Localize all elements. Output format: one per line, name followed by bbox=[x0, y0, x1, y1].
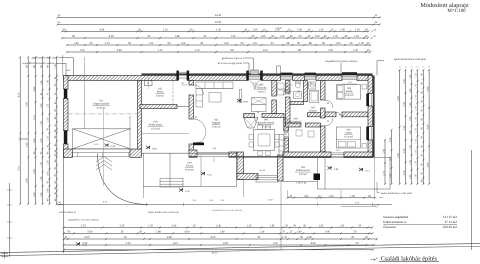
svg-text:24.30: 24.30 bbox=[215, 14, 222, 17]
svg-text:1.90: 1.90 bbox=[54, 64, 57, 69]
dimension row bottom 2 bbox=[63, 232, 374, 234]
covered terrace 01A outline bbox=[142, 152, 190, 154]
svg-text:1.40: 1.40 bbox=[40, 176, 43, 181]
svg-text:15: 15 bbox=[405, 66, 407, 69]
svg-text:1.10: 1.10 bbox=[157, 49, 162, 52]
svg-text:1.35: 1.35 bbox=[148, 42, 153, 45]
svg-text:Fedett terasz: Fedett terasz bbox=[149, 124, 163, 127]
wall: hall/bedroom partition bbox=[321, 81, 326, 101]
wall: nappali left partition lower bbox=[189, 144, 194, 152]
svg-text:24.30: 24.30 bbox=[211, 252, 218, 255]
window left wall 1 (dark) bbox=[64, 89, 68, 99]
svg-text:3.05: 3.05 bbox=[328, 49, 333, 52]
tv bbox=[240, 90, 242, 103]
wall: garage bottom right pier bbox=[130, 149, 142, 157]
svg-text:131.15 m2: 131.15 m2 bbox=[443, 215, 457, 219]
dimension column right 3 bbox=[410, 69, 412, 185]
svg-text:1.10: 1.10 bbox=[259, 230, 264, 233]
svg-text:Családi lakóház építés: Családi lakóház építés bbox=[381, 255, 438, 262]
dimension column left 4 bbox=[41, 56, 43, 205]
dimension row top 5 bbox=[66, 44, 372, 46]
svg-text:1.01: 1.01 bbox=[252, 42, 257, 45]
svg-text:7.10: 7.10 bbox=[18, 166, 21, 171]
svg-text:1.10: 1.10 bbox=[415, 161, 418, 166]
svg-text:1.40: 1.40 bbox=[297, 230, 302, 233]
svg-text:1.48: 1.48 bbox=[174, 35, 179, 38]
svg-text:-0.45: -0.45 bbox=[207, 173, 213, 176]
svg-text:1.00: 1.00 bbox=[340, 28, 345, 31]
svg-text:aszfalt lehajtó út: aszfalt lehajtó út bbox=[59, 211, 76, 214]
svg-text:épület körüli beton védő járda: épület körüli beton védő járda bbox=[381, 192, 413, 195]
svg-text:1.80: 1.80 bbox=[389, 156, 392, 161]
svg-text:1.40: 1.40 bbox=[40, 80, 43, 85]
svg-text:37.12 m2: 37.12 m2 bbox=[445, 220, 458, 224]
plot boundary left bbox=[9, 183, 11, 257]
svg-text:1.25: 1.25 bbox=[280, 35, 285, 38]
svg-text:1.20: 1.20 bbox=[231, 35, 236, 38]
svg-text:4.90: 4.90 bbox=[325, 230, 330, 233]
svg-text:1.10: 1.10 bbox=[415, 150, 418, 155]
terasz 01A mid line bbox=[142, 133, 190, 135]
svg-text:csapadékvíz levezető csatorna: csapadékvíz levezető csatorna bbox=[68, 218, 100, 221]
dimension row bottom 4 bbox=[63, 244, 375, 246]
svg-text:1.20: 1.20 bbox=[47, 117, 50, 122]
garage centre dashed line bbox=[68, 113, 138, 115]
svg-text:±0.00: ±0.00 bbox=[152, 147, 158, 150]
svg-text:1.10: 1.10 bbox=[246, 225, 251, 228]
svg-text:1.60: 1.60 bbox=[224, 42, 229, 45]
window W4 top wall with shutter box bbox=[305, 76, 317, 79]
window W1 top wall with jamb piers bbox=[176, 71, 179, 81]
wall: bottom-right outer segment 2 bbox=[344, 152, 373, 158]
terasz 021 open edge bbox=[283, 158, 318, 182]
bathtub bbox=[310, 90, 319, 102]
wall: bath mid vertical bbox=[303, 81, 307, 102]
svg-text:1.50: 1.50 bbox=[148, 225, 153, 228]
wall: kitchen top bbox=[244, 114, 255, 118]
wall: top outer, segment 6 bbox=[357, 76, 373, 81]
svg-text:1.50: 1.50 bbox=[409, 145, 412, 150]
svg-text:6.00: 6.00 bbox=[85, 236, 90, 239]
svg-text:5.70: 5.70 bbox=[397, 96, 400, 101]
wall: nappali bottom left segment bbox=[189, 150, 197, 157]
sofa bbox=[196, 82, 233, 89]
wardrobe room005 bbox=[251, 98, 266, 105]
svg-text:4.70: 4.70 bbox=[26, 178, 29, 183]
svg-text:5.09 m2: 5.09 m2 bbox=[258, 90, 267, 93]
wall: bottom-right outer segment 1 bbox=[283, 152, 331, 158]
window left wall 2 (dark) bbox=[64, 131, 68, 145]
elevation marker open terrace 2 bbox=[359, 168, 363, 171]
svg-text:1.45: 1.45 bbox=[318, 225, 323, 228]
svg-text:2.90: 2.90 bbox=[33, 169, 36, 174]
elevation marker garage door left bbox=[105, 144, 109, 147]
svg-text:8.35: 8.35 bbox=[18, 92, 21, 97]
wall: dining terrace left bbox=[237, 152, 244, 180]
svg-text:5.00: 5.00 bbox=[88, 230, 93, 233]
wall: nappali left partition upper seg1 bbox=[189, 81, 194, 86]
washbasin bbox=[294, 92, 302, 99]
door gap terasz-nappali bbox=[189, 85, 204, 95]
wall: room005/006 partition bbox=[272, 81, 277, 97]
svg-text:2.80: 2.80 bbox=[156, 230, 161, 233]
svg-text:1.60: 1.60 bbox=[40, 138, 43, 143]
svg-text:15: 15 bbox=[422, 66, 424, 69]
svg-text:1.40: 1.40 bbox=[409, 130, 412, 135]
svg-text:1.55: 1.55 bbox=[47, 103, 50, 108]
extension line left wall to top dims bbox=[62, 55, 64, 76]
svg-text:1.20: 1.20 bbox=[180, 42, 185, 45]
svg-text:8.50 m2: 8.50 m2 bbox=[156, 94, 165, 97]
svg-text:2.10: 2.10 bbox=[382, 171, 385, 176]
svg-text:Összesen:: Összesen: bbox=[383, 225, 396, 229]
wall: left outer upper bbox=[64, 76, 69, 90]
dashed open edge terasz 012 bbox=[172, 81, 174, 105]
svg-text:3.10: 3.10 bbox=[33, 115, 36, 120]
svg-text:2.60: 2.60 bbox=[33, 86, 36, 91]
svg-text:Fedett terasz: Fedett terasz bbox=[296, 169, 310, 172]
svg-text:Fürdő: Fürdő bbox=[284, 89, 291, 92]
svg-text:3.10: 3.10 bbox=[105, 42, 110, 45]
washing machine bbox=[309, 82, 316, 89]
insulation dark bar along top wall bbox=[142, 73, 373, 75]
annotation label right-mid 2 bbox=[379, 197, 383, 199]
svg-text:1.80: 1.80 bbox=[303, 195, 308, 198]
svg-text:1.00: 1.00 bbox=[47, 188, 50, 193]
svg-text:5.70: 5.70 bbox=[397, 153, 400, 158]
svg-text:1.50: 1.50 bbox=[354, 35, 359, 38]
svg-text:1.60: 1.60 bbox=[329, 195, 334, 198]
vent flue above wall bbox=[277, 66, 281, 76]
svg-text:fedett teraszok s.t.: fedett teraszok s.t. bbox=[383, 220, 407, 224]
wall: top outer, segment 3 bbox=[262, 76, 281, 81]
garage centre vertical line bbox=[102, 108, 104, 186]
svg-text:4.08: 4.08 bbox=[99, 28, 104, 31]
door W2 (entrance) top wall with jamb piers bbox=[246, 71, 249, 81]
svg-text:1.20: 1.20 bbox=[353, 49, 358, 52]
wall: right outer seg2 bbox=[368, 106, 373, 127]
svg-text:1.35: 1.35 bbox=[163, 28, 168, 31]
svg-text:-0.40: -0.40 bbox=[82, 244, 88, 247]
svg-text:csapadékvíz levezető csatorna: csapadékvíz levezető csatorna bbox=[325, 60, 358, 63]
svg-text:2.30: 2.30 bbox=[403, 102, 406, 107]
svg-text:Módosított alaprajz: Módosított alaprajz bbox=[420, 2, 469, 9]
lintel beam dark bar bbox=[193, 143, 204, 146]
svg-text:1.00: 1.00 bbox=[47, 171, 50, 176]
pavement line below building bbox=[60, 204, 393, 206]
window W5 top wall with shutter box bbox=[342, 76, 357, 79]
svg-text:1.90: 1.90 bbox=[350, 195, 355, 198]
svg-text:Gépkocsitároló: Gépkocsitároló bbox=[93, 103, 110, 106]
svg-text:9.29 m2: 9.29 m2 bbox=[299, 173, 308, 176]
dining table bbox=[254, 130, 275, 151]
svg-text:1.60: 1.60 bbox=[33, 138, 36, 143]
wall: bedrooms partition bbox=[325, 112, 336, 117]
svg-text:2.10: 2.10 bbox=[273, 242, 278, 245]
garage door opening bbox=[73, 148, 131, 150]
terrace door bottom-right bbox=[331, 153, 344, 157]
svg-text:4.90: 4.90 bbox=[307, 236, 312, 239]
svg-text:24.30: 24.30 bbox=[215, 21, 222, 24]
dimension column left 6 bbox=[56, 56, 58, 205]
svg-text:gerébtokos fejlécek: gerébtokos fejlécek bbox=[222, 57, 243, 60]
svg-text:Szoba: Szoba bbox=[345, 132, 352, 135]
glass door nappali bottom bbox=[197, 152, 229, 156]
svg-text:2.30: 2.30 bbox=[382, 149, 385, 154]
svg-text:1.40: 1.40 bbox=[409, 102, 412, 107]
svg-text:1.40: 1.40 bbox=[409, 74, 412, 79]
door arcs bedroom wall bbox=[325, 100, 333, 126]
wall: right outer seg1 bbox=[368, 76, 373, 94]
svg-text:1.90: 1.90 bbox=[40, 121, 43, 126]
svg-text:1.60: 1.60 bbox=[80, 49, 85, 52]
svg-text:1.50: 1.50 bbox=[409, 160, 412, 165]
coffee table bbox=[209, 93, 221, 103]
svg-text:1.00: 1.00 bbox=[359, 42, 364, 45]
insulation dark bar right wall bbox=[373, 76, 375, 158]
wall: left outer lower bbox=[64, 144, 69, 157]
svg-text:2.40: 2.40 bbox=[26, 142, 29, 147]
wall: dining terrace bottom bbox=[237, 174, 258, 180]
door arc kitchen bbox=[255, 118, 263, 126]
pantry shelves bbox=[284, 133, 289, 149]
svg-text:3.80: 3.80 bbox=[426, 86, 429, 91]
dimension row top 3 bbox=[61, 30, 370, 32]
black pillar bbox=[314, 174, 321, 181]
dimension row top 4 bbox=[61, 37, 369, 39]
svg-text:±0.00: ±0.00 bbox=[110, 145, 116, 148]
svg-text:Szoba: Szoba bbox=[346, 90, 353, 93]
svg-text:Konyha-étkező: Konyha-étkező bbox=[258, 122, 275, 125]
svg-text:1.30: 1.30 bbox=[47, 80, 50, 85]
svg-text:12.19 m2: 12.19 m2 bbox=[344, 135, 354, 138]
svg-text:15: 15 bbox=[416, 66, 418, 69]
column symbol near terasz bbox=[144, 81, 152, 86]
svg-text:14.70: 14.70 bbox=[276, 27, 283, 30]
svg-text:1.10: 1.10 bbox=[47, 136, 50, 141]
svg-text:1.40: 1.40 bbox=[409, 116, 412, 121]
svg-text:1.80: 1.80 bbox=[40, 192, 43, 197]
wall: nappali left partition upper seg2 bbox=[189, 95, 194, 119]
elevation marker garage door right bbox=[146, 146, 150, 149]
window right wall 1 bbox=[369, 94, 372, 107]
wall: top outer, segment 1 bbox=[64, 76, 179, 81]
svg-text:1.10: 1.10 bbox=[415, 128, 418, 133]
wall: terasz 012 bottom bbox=[140, 105, 177, 109]
wall: garage right partition bbox=[138, 81, 142, 150]
dimension row top 6 bbox=[66, 51, 372, 53]
svg-text:hasznos alapterület: hasznos alapterület bbox=[383, 215, 408, 219]
dimension row bottom 5 bbox=[63, 249, 375, 251]
small fixtures room006 bbox=[278, 83, 285, 89]
svg-text:4.10: 4.10 bbox=[173, 242, 178, 245]
dimension row bottom 1 bbox=[63, 226, 374, 228]
svg-text:-0.90: -0.90 bbox=[333, 168, 339, 171]
svg-text:5.20: 5.20 bbox=[126, 242, 131, 245]
wall: bath horizontal bbox=[290, 102, 303, 105]
svg-text:3.50: 3.50 bbox=[81, 225, 86, 228]
svg-text:1.00: 1.00 bbox=[315, 35, 320, 38]
plot boundary right bbox=[471, 150, 473, 250]
svg-text:1.80: 1.80 bbox=[33, 192, 36, 197]
svg-text:csapadékvíz levezető csatorna: csapadékvíz levezető csatorna bbox=[212, 209, 243, 212]
svg-text:15: 15 bbox=[428, 66, 430, 69]
dimension column right 2 bbox=[405, 69, 407, 185]
svg-text:1.10: 1.10 bbox=[415, 139, 418, 144]
dimension column left 1 bbox=[19, 56, 21, 205]
dimension column left 2 bbox=[27, 56, 29, 205]
wall: garage bottom left pier bbox=[64, 149, 73, 157]
svg-text:6.50 m2: 6.50 m2 bbox=[283, 92, 292, 95]
svg-text:1.35: 1.35 bbox=[282, 236, 287, 239]
svg-text:2.30: 2.30 bbox=[403, 79, 406, 84]
dimension column right 1 bbox=[399, 69, 401, 185]
small dim line under open terrace bbox=[286, 197, 376, 199]
svg-text:2.20: 2.20 bbox=[403, 148, 406, 153]
entrance sill outside bbox=[251, 70, 259, 75]
svg-text:épület körüli beton védő járda: épület körüli beton védő járda bbox=[394, 58, 427, 61]
svg-text:Terasz: Terasz bbox=[157, 91, 165, 94]
dimension column right 4 bbox=[416, 69, 418, 185]
wall: top outer, segment 5 bbox=[316, 76, 342, 81]
dimension column right short B bbox=[390, 129, 392, 185]
svg-text:1.45: 1.45 bbox=[216, 28, 221, 31]
svg-text:1.40: 1.40 bbox=[409, 174, 412, 179]
svg-text:4.80: 4.80 bbox=[167, 236, 172, 239]
svg-text:17.34 m2: 17.34 m2 bbox=[261, 125, 271, 128]
window W3 top wall with shutter box bbox=[281, 76, 293, 79]
svg-text:1.50: 1.50 bbox=[40, 162, 43, 167]
svg-text:1.20: 1.20 bbox=[355, 28, 360, 31]
svg-text:Előszoba: Előszoba bbox=[257, 87, 268, 90]
wall: top outer, segment 2 bbox=[188, 76, 249, 81]
interior door dim ticks bbox=[182, 84, 357, 85]
svg-text:1.45: 1.45 bbox=[339, 225, 344, 228]
svg-text:2.40: 2.40 bbox=[216, 225, 221, 228]
svg-text:-0.45: -0.45 bbox=[185, 190, 191, 193]
corner mark bottom-left bbox=[1, 252, 8, 259]
svg-text:1.20: 1.20 bbox=[47, 160, 50, 165]
svg-text:12.50 m2: 12.50 m2 bbox=[344, 94, 354, 97]
fireplace bbox=[244, 118, 259, 129]
svg-text:Kamra: Kamra bbox=[309, 110, 317, 113]
drop line at dining terrace corner bbox=[280, 182, 282, 251]
terrain line 2 bbox=[0, 246, 480, 255]
hall cabinet bbox=[296, 130, 302, 136]
kitchen counter bbox=[279, 135, 284, 157]
dimension row top 1 (24.30 overall) bbox=[56, 16, 374, 18]
wall: top outer, segment 4 bbox=[293, 76, 305, 81]
svg-text:5+86+5 db: 5+86+5 db bbox=[296, 182, 307, 185]
svg-text:1.10: 1.10 bbox=[415, 95, 418, 100]
svg-text:168.28 m2: 168.28 m2 bbox=[443, 225, 457, 229]
svg-text:11.50: 11.50 bbox=[267, 198, 273, 201]
open terrace right outline bbox=[318, 158, 391, 190]
wall: right outer seg3 bbox=[368, 140, 373, 157]
svg-text:2.00: 2.00 bbox=[389, 137, 392, 142]
dimension column right 6 bbox=[428, 69, 430, 185]
svg-text:5.10: 5.10 bbox=[195, 49, 200, 52]
svg-text:1.40: 1.40 bbox=[409, 88, 412, 93]
svg-text:1.05: 1.05 bbox=[336, 42, 341, 45]
dimension column left 5 bbox=[48, 56, 50, 205]
svg-text:1.00: 1.00 bbox=[253, 28, 258, 31]
svg-text:5.40: 5.40 bbox=[171, 225, 176, 228]
elevation marker terrace steps bbox=[179, 188, 183, 191]
svg-text:1.05: 1.05 bbox=[333, 35, 338, 38]
window right wall 2 bbox=[369, 127, 372, 141]
svg-text:1.10: 1.10 bbox=[415, 73, 418, 78]
svg-text:M=1:100: M=1:100 bbox=[447, 8, 466, 14]
svg-text:1.60: 1.60 bbox=[40, 103, 43, 108]
elevation marker open terrace 1 bbox=[328, 166, 332, 169]
ramp chevrons bbox=[96, 157, 112, 171]
driveway arc bbox=[98, 154, 149, 205]
steps terrace 01A bbox=[160, 178, 183, 187]
svg-text:20.35 m2: 20.35 m2 bbox=[96, 106, 106, 109]
svg-text:4.00: 4.00 bbox=[109, 35, 114, 38]
svg-text:27.06 m2: 27.06 m2 bbox=[211, 125, 221, 128]
svg-text:4.40: 4.40 bbox=[117, 49, 122, 52]
wall: nappali bottom right segment bbox=[229, 152, 237, 157]
svg-text:1.40: 1.40 bbox=[220, 230, 225, 233]
wc bbox=[295, 82, 300, 88]
left vertical boundary under garage bbox=[63, 154, 65, 254]
svg-text:Nappali: Nappali bbox=[212, 122, 221, 125]
dimension column left 3 bbox=[35, 56, 37, 205]
svg-text:Közlekedő: Közlekedő bbox=[290, 121, 302, 124]
svg-text:1.40: 1.40 bbox=[74, 42, 79, 45]
svg-text:4.10: 4.10 bbox=[263, 49, 268, 52]
door arcs nappali left bbox=[194, 119, 207, 144]
bed bedroom 004 bbox=[336, 85, 360, 100]
svg-text:1.10: 1.10 bbox=[415, 106, 418, 111]
svg-text:3.80: 3.80 bbox=[426, 162, 429, 167]
bed bedroom 003 bbox=[336, 127, 360, 148]
svg-text:4.00: 4.00 bbox=[185, 230, 190, 233]
svg-text:2x0.30: 2x0.30 bbox=[259, 169, 266, 172]
elevation marker terrace bbox=[201, 172, 205, 175]
svg-text:15: 15 bbox=[411, 66, 413, 69]
svg-text:csapadékvíz levezető csatorna: csapadékvíz levezető csatorna bbox=[22, 62, 55, 65]
svg-text:1.60: 1.60 bbox=[389, 173, 392, 178]
svg-text:5.70: 5.70 bbox=[26, 102, 29, 107]
steps at dining terrace bbox=[256, 176, 278, 183]
svg-text:3.50: 3.50 bbox=[119, 225, 124, 228]
svg-text:3.80: 3.80 bbox=[426, 124, 429, 129]
wall: kitchen right bbox=[284, 118, 289, 132]
svg-text:±0.00: ±0.00 bbox=[243, 100, 249, 103]
svg-text:15: 15 bbox=[399, 66, 401, 69]
wall: room006/007 partition bbox=[286, 81, 291, 94]
svg-text:1.10: 1.10 bbox=[415, 117, 418, 122]
garage car space X box bbox=[73, 129, 131, 149]
svg-text:4.40: 4.40 bbox=[311, 242, 316, 245]
section mark left bbox=[20, 137, 28, 140]
svg-text:épület körüli beton védő járda: épület körüli beton védő járda bbox=[148, 211, 179, 214]
svg-text:19.29 m2: 19.29 m2 bbox=[185, 168, 195, 171]
dimension row bottom 3 bbox=[63, 238, 379, 240]
svg-text:1.20: 1.20 bbox=[319, 28, 324, 31]
terrain line 1 bbox=[0, 244, 480, 253]
svg-text:4.50: 4.50 bbox=[210, 236, 215, 239]
svg-text:4.00: 4.00 bbox=[223, 242, 228, 245]
wall: hall mid bbox=[286, 123, 302, 127]
svg-text:2.20: 2.20 bbox=[403, 170, 406, 175]
60 tick near pavement left bbox=[57, 203, 64, 205]
dimension column right 5 bbox=[422, 69, 424, 185]
wall: dining terrace right bbox=[278, 155, 284, 181]
